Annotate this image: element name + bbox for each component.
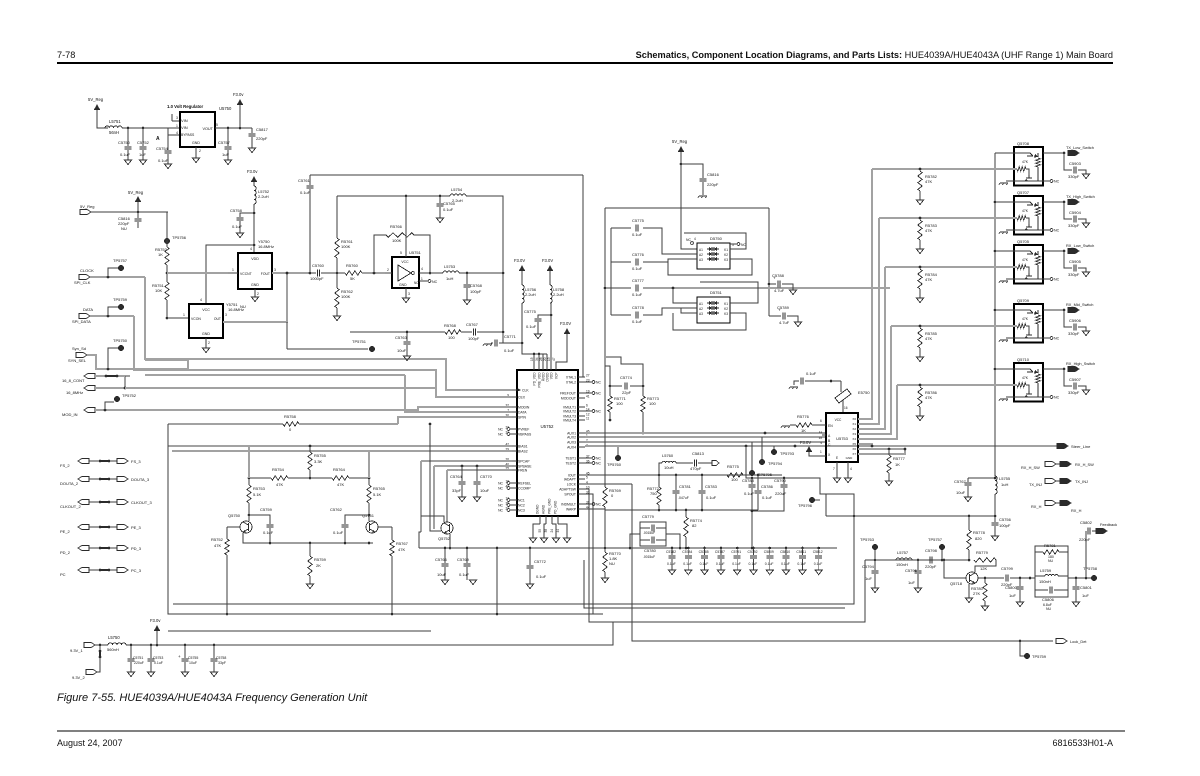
- svg-text:0.1uF: 0.1uF: [706, 495, 717, 500]
- svg-text:0.1uF: 0.1uF: [300, 190, 311, 195]
- svg-text:E5750: E5750: [858, 390, 870, 395]
- svg-text:CLKOUT_2: CLKOUT_2: [60, 504, 81, 509]
- svg-text:220pF: 220pF: [925, 564, 937, 569]
- svg-text:X1: X1: [852, 422, 856, 426]
- svg-text:PD_3: PD_3: [131, 546, 142, 551]
- svg-text:NC: NC: [1054, 229, 1060, 233]
- oscillator Y5750: [238, 253, 272, 289]
- svg-text:LOCK: LOCK: [567, 483, 577, 487]
- svg-text:VDD: VDD: [251, 257, 259, 261]
- capacitor C5785: [703, 547, 706, 550]
- U5752 bottom pins: [539, 516, 541, 524]
- svg-text:CLKOUT_3: CLKOUT_3: [131, 500, 152, 505]
- wire: [374, 235, 386, 273]
- wire: [414, 235, 430, 273]
- test point TP5759b: [1020, 641, 1024, 656]
- wire pin3: [405, 288, 407, 298]
- svg-text:F3.0v: F3.0v: [247, 169, 258, 174]
- capacitor C5757b: [968, 477, 995, 479]
- svg-text:470pF: 470pF: [690, 466, 702, 471]
- wire: [272, 272, 311, 274]
- svg-text:L5757: L5757: [897, 550, 909, 555]
- svg-text:100: 100: [616, 401, 623, 406]
- power 5V_Reg: [94, 104, 100, 110]
- wire: [122, 127, 180, 129]
- svg-text:27K: 27K: [973, 591, 980, 596]
- wire: [658, 505, 660, 510]
- svg-text:TX_Low_Switch: TX_Low_Switch: [1066, 145, 1094, 150]
- svg-text:R5777: R5777: [893, 456, 906, 461]
- svg-text:11: 11: [819, 430, 822, 434]
- svg-text:R5775: R5775: [727, 464, 740, 469]
- svg-text:C5764: C5764: [450, 474, 463, 479]
- svg-text:A3: A3: [699, 312, 703, 316]
- power F3.0V: [564, 328, 570, 334]
- svg-text:100pF: 100pF: [470, 289, 482, 294]
- svg-text:C5770: C5770: [480, 474, 493, 479]
- ground: [833, 478, 840, 483]
- port 16_8MHz: [84, 385, 95, 390]
- svg-text:VDD: VDD: [550, 372, 554, 379]
- test point TP5763: [872, 544, 878, 550]
- port PE_2: [78, 524, 89, 529]
- svg-text:47K: 47K: [1022, 160, 1029, 164]
- svg-text:47K: 47K: [337, 482, 344, 487]
- svg-text:1K: 1K: [895, 462, 900, 467]
- ground: [127, 672, 134, 677]
- svg-text:GND: GND: [192, 141, 200, 145]
- wire: [309, 470, 311, 478]
- no-connect: [1043, 278, 1050, 280]
- resistor R5751: [165, 282, 169, 300]
- resistor R5774: [685, 510, 687, 517]
- wire: [681, 152, 697, 249]
- test point TP5752: [114, 396, 120, 402]
- svg-text:NC: NC: [498, 427, 503, 431]
- svg-text:RX_H: RX_H: [1031, 504, 1042, 509]
- wire: [97, 645, 100, 672]
- svg-text:CLOCK: CLOCK: [80, 268, 94, 273]
- ground: [871, 588, 878, 593]
- svg-text:OUT: OUT: [214, 317, 221, 321]
- capacitor C5774: [609, 385, 612, 388]
- svg-text:2: 2: [199, 149, 201, 153]
- wire SPBASE: [434, 465, 512, 467]
- capacitor C5758: [240, 213, 254, 217]
- svg-text:16.8MHz: 16.8MHz: [228, 307, 244, 312]
- svg-text:NC: NC: [498, 498, 503, 502]
- svg-text:NC: NC: [596, 456, 601, 460]
- svg-text:0.1uF: 0.1uF: [443, 207, 454, 212]
- test point TP5759: [108, 307, 118, 316]
- svg-text:C5781: C5781: [679, 484, 692, 489]
- capacitor C5757: [227, 128, 229, 146]
- port FS_2: [78, 458, 89, 463]
- svg-text:PD_GND: PD_GND: [554, 500, 558, 514]
- capacitor C5813: [676, 462, 693, 464]
- svg-text:R5754: R5754: [272, 467, 285, 472]
- capacitor C5795: [917, 560, 919, 570]
- wire: [91, 211, 168, 213]
- power F3.0V: [519, 265, 525, 271]
- wire: [1034, 552, 1036, 590]
- svg-text:3: 3: [408, 292, 410, 296]
- svg-text:L5753: L5753: [444, 264, 456, 269]
- svg-text:0.1uF: 0.1uF: [700, 562, 709, 566]
- svg-text:1: 1: [421, 277, 423, 281]
- svg-text:AUX3: AUX3: [567, 441, 576, 445]
- ground: [1082, 174, 1089, 179]
- test point TP5794: [761, 437, 763, 462]
- wire bus y548: [419, 547, 672, 549]
- svg-text:C5790: C5790: [774, 478, 787, 483]
- port TX_High_Switch: [1063, 201, 1066, 204]
- svg-text:X6: X6: [852, 447, 856, 451]
- svg-text:GND: GND: [846, 456, 854, 460]
- svg-text:PE_3: PE_3: [131, 525, 142, 530]
- wire: [248, 503, 250, 515]
- svg-text:NC: NC: [1054, 396, 1060, 400]
- svg-text:1.0 Volt Regulator: 1.0 Volt Regulator: [167, 104, 204, 109]
- svg-text:C5760: C5760: [312, 263, 325, 268]
- resistor R5780: [984, 578, 986, 583]
- svg-text:X7: X7: [852, 452, 856, 456]
- svg-text:C5751: C5751: [133, 656, 143, 660]
- svg-text:Q5718: Q5718: [950, 581, 963, 586]
- resistor R5766: [386, 233, 414, 237]
- wire: [630, 534, 640, 548]
- regulator U5750: [180, 112, 215, 147]
- svg-text:CEX: CEX: [518, 396, 526, 400]
- svg-text:2: 2: [387, 268, 389, 272]
- svg-text:NC1: NC1: [518, 499, 525, 503]
- inductor L5754: [450, 194, 466, 196]
- capacitor C5798: [929, 557, 931, 564]
- test point TP5751: [369, 346, 375, 352]
- svg-text:DOUTA_2: DOUTA_2: [60, 481, 79, 486]
- power F3.0V: [547, 265, 553, 271]
- IC U5752: [517, 370, 578, 516]
- wire 9.3V rail: [126, 560, 865, 645]
- svg-text:+: +: [178, 654, 181, 659]
- capacitor C5788: [769, 283, 776, 285]
- power F3.0v: [239, 105, 241, 128]
- footer rule: [57, 730, 1125, 732]
- capacitor C5775b: [611, 227, 631, 229]
- capacitor C5783: [701, 475, 703, 490]
- svg-text:1uF: 1uF: [865, 576, 872, 581]
- wire C5773 rail: [523, 353, 547, 355]
- capacitor C5788c: [751, 478, 753, 484]
- ground: [192, 158, 199, 163]
- U5752 right NC: [585, 381, 592, 383]
- svg-text:F3.0V: F3.0V: [514, 258, 525, 263]
- svg-text:33pF: 33pF: [218, 661, 226, 665]
- resistor R5754: [249, 477, 271, 479]
- svg-text:C5809: C5809: [764, 550, 774, 554]
- svg-text:Q5751: Q5751: [362, 513, 375, 518]
- no-connect: [691, 242, 694, 245]
- svg-text:NU: NU: [1048, 559, 1054, 563]
- svg-text:0.1uF: 0.1uF: [781, 562, 790, 566]
- svg-text:47K: 47K: [1022, 376, 1029, 380]
- U5752 top pins: [533, 364, 535, 370]
- ground: [402, 298, 409, 303]
- port DATA: [79, 313, 90, 318]
- svg-text:R5781: R5781: [1044, 543, 1057, 548]
- inductor L5750: [108, 643, 126, 645]
- svg-text:0.1uF: 0.1uF: [120, 152, 131, 157]
- svg-text:0.1uF: 0.1uF: [814, 562, 823, 566]
- svg-text:NC: NC: [414, 281, 419, 285]
- svg-text:MODOUT: MODOUT: [561, 397, 576, 401]
- wire: [522, 303, 523, 354]
- wire: [459, 272, 503, 274]
- svg-text:VBPASS: VBPASS: [518, 433, 532, 437]
- wire cap row bus: [666, 547, 837, 549]
- power F3.0V: [806, 446, 812, 452]
- wire: [610, 228, 612, 315]
- capacitor C5792: [752, 547, 755, 550]
- svg-text:10uF: 10uF: [397, 348, 407, 353]
- svg-text:CLK: CLK: [522, 389, 529, 393]
- svg-text:C5767: C5767: [954, 479, 967, 484]
- svg-text:0.1uF: 0.1uF: [797, 562, 806, 566]
- wire: [166, 265, 168, 282]
- port PC: [78, 567, 89, 572]
- svg-text:100K: 100K: [341, 294, 351, 299]
- capacitor C5762: [345, 515, 369, 524]
- svg-text:F3.0V: F3.0V: [560, 321, 571, 326]
- wire: [167, 317, 189, 319]
- svg-text:7-78: 7-78: [57, 50, 75, 60]
- svg-text:R5755: R5755: [314, 453, 327, 458]
- ground: [469, 580, 476, 585]
- port MOD_IN: [84, 407, 95, 412]
- svg-text:56nH: 56nH: [109, 130, 119, 135]
- svg-text:7: 7: [833, 467, 835, 471]
- svg-text:.047uF: .047uF: [678, 496, 689, 500]
- ground: [403, 356, 410, 361]
- port FS_3: [117, 458, 128, 463]
- wire SPOUT drop: [585, 494, 593, 614]
- capacitor C5774: [800, 378, 802, 385]
- svg-text:RX_H: RX_H: [1071, 508, 1082, 513]
- svg-text:0.1uF: 0.1uF: [158, 158, 169, 163]
- svg-text:Steer_Line: Steer_Line: [1071, 444, 1091, 449]
- wire: [89, 478, 117, 480]
- capacitor C5756b: [994, 520, 996, 522]
- wire 16_8MHz net: [125, 387, 436, 389]
- svg-text:X4: X4: [852, 437, 856, 441]
- svg-text:0.1uF: 0.1uF: [232, 224, 243, 229]
- svg-text:C5762: C5762: [330, 507, 343, 512]
- capacitor C5787: [720, 547, 723, 550]
- wire: [466, 196, 503, 343]
- capacitor C5771: [491, 342, 493, 344]
- svg-text:0.1uF: 0.1uF: [683, 562, 692, 566]
- svg-text:5: 5: [586, 475, 588, 479]
- test point TP5795: [751, 442, 753, 473]
- wire: [97, 110, 108, 128]
- svg-text:TP5793: TP5793: [780, 451, 795, 456]
- svg-text:1: 1: [232, 268, 234, 272]
- svg-text:16.8MHz: 16.8MHz: [258, 244, 274, 249]
- wire row1 corner: [994, 152, 996, 154]
- svg-text:C5906: C5906: [1069, 318, 1082, 323]
- svg-text:AUX2: AUX2: [567, 436, 576, 440]
- svg-text:2.2uH: 2.2uH: [553, 292, 564, 297]
- wire y516: [826, 515, 995, 517]
- svg-text:5V_Reg: 5V_Reg: [88, 97, 104, 102]
- wire: [1068, 577, 1092, 579]
- ground: [526, 584, 533, 589]
- svg-text:750: 750: [650, 491, 657, 496]
- capacitor C5811: [801, 547, 804, 550]
- svg-text:220pF: 220pF: [256, 136, 268, 141]
- wire: [95, 644, 108, 646]
- port PD_3: [117, 545, 128, 550]
- wire: [430, 424, 441, 531]
- svg-text:C5903: C5903: [1069, 161, 1082, 166]
- svg-text:5V_Reg: 5V_Reg: [672, 139, 688, 144]
- svg-text:55: 55: [538, 529, 542, 533]
- inductor L5757: [896, 558, 912, 560]
- svg-text:TP5763: TP5763: [860, 537, 875, 542]
- svg-text:C5794: C5794: [862, 564, 875, 569]
- wire X5: [858, 444, 872, 446]
- ground: [604, 572, 606, 578]
- svg-text:U5750: U5750: [219, 106, 232, 111]
- wire: [137, 202, 139, 212]
- svg-text:NC: NC: [596, 502, 601, 506]
- capacitor C5799: [1005, 575, 1007, 582]
- svg-text:100pF: 100pF: [468, 336, 480, 341]
- ground: [799, 570, 806, 575]
- svg-text:4: 4: [694, 237, 696, 241]
- svg-text:C5799: C5799: [1001, 566, 1014, 571]
- ground: [529, 538, 536, 543]
- svg-text:C5753: C5753: [153, 656, 163, 660]
- svg-text:RX_H_SW: RX_H_SW: [1075, 462, 1094, 467]
- capacitor C5816b: [681, 164, 703, 178]
- test point TP5756: [164, 238, 170, 244]
- svg-text:C5757: C5757: [218, 140, 231, 145]
- resistor R5759: [309, 543, 311, 556]
- wire: [89, 501, 117, 503]
- inductor L5753: [443, 271, 459, 273]
- wire IOUT row: [585, 474, 758, 476]
- svg-text:TP5750: TP5750: [113, 338, 128, 343]
- svg-text:0.1uF: 0.1uF: [632, 266, 643, 271]
- wire: [606, 357, 643, 386]
- wire DATA staircase: [133, 369, 135, 371]
- svg-text:6816533H01-A: 6816533H01-A: [1052, 738, 1113, 748]
- no-connect: [1043, 396, 1050, 398]
- ground: [1082, 331, 1089, 336]
- svg-text:F3.0V: F3.0V: [800, 440, 811, 445]
- wire AUX3: [585, 441, 826, 443]
- capacitor C5781: [675, 475, 677, 490]
- svg-text:A2: A2: [699, 253, 703, 257]
- wire rail B: [337, 195, 450, 197]
- ground: [981, 606, 988, 611]
- capacitor C5772: [529, 548, 531, 565]
- resistor R5772: [658, 475, 660, 487]
- svg-text:82: 82: [692, 523, 697, 528]
- wire: [90, 276, 145, 278]
- svg-text:0.1uF: 0.1uF: [154, 661, 163, 665]
- svg-text:330pF: 330pF: [1068, 331, 1080, 336]
- svg-text:NC: NC: [686, 238, 691, 242]
- svg-text:TP5759: TP5759: [113, 297, 128, 302]
- svg-text:0.1uF: 0.1uF: [632, 232, 643, 237]
- capacitor C5906: [1064, 310, 1072, 327]
- svg-text:47: 47: [552, 357, 556, 361]
- wire D5750 out: [684, 233, 746, 249]
- wire: [978, 577, 1004, 579]
- wire y560: [865, 559, 969, 561]
- svg-text:3: 3: [274, 268, 276, 272]
- wire: [405, 196, 407, 257]
- svg-text:C5810: C5810: [780, 550, 790, 554]
- svg-text:C5765: C5765: [443, 201, 456, 206]
- svg-text:X0: X0: [852, 417, 856, 421]
- ground: [463, 300, 470, 305]
- svg-text:1K: 1K: [801, 428, 806, 433]
- resistor R5752b: [227, 526, 240, 528]
- resistor R5767: [378, 526, 392, 528]
- transistor Q5751: [366, 521, 378, 533]
- wire: [556, 334, 567, 370]
- wire U5753 A: [822, 434, 826, 436]
- no-connect: [419, 280, 428, 282]
- wire: [89, 460, 117, 462]
- svg-text:47K: 47K: [925, 228, 932, 233]
- svg-text:NC: NC: [596, 461, 601, 465]
- wire y510 node: [585, 508, 605, 510]
- wire emitters: [243, 533, 373, 543]
- ground: [1000, 398, 1008, 400]
- port PE_3: [117, 524, 128, 529]
- svg-text:.0015uF: .0015uF: [643, 531, 655, 535]
- wire AUX2: [585, 436, 826, 438]
- svg-text:C5758: C5758: [216, 656, 226, 660]
- svg-text:C5816: C5816: [707, 172, 720, 177]
- svg-text:47K: 47K: [925, 395, 932, 400]
- svg-text:K2: K2: [724, 253, 728, 257]
- transistor Q5752: [441, 522, 453, 534]
- resistor R5760: [345, 271, 362, 275]
- wire CEX staircase: [134, 316, 512, 397]
- svg-text:C5769: C5769: [457, 557, 470, 562]
- svg-text:GND: GND: [251, 283, 259, 287]
- svg-text:220pF: 220pF: [707, 182, 719, 187]
- svg-text:RX_H_SW: RX_H_SW: [1021, 465, 1040, 470]
- wire SPCAP: [421, 460, 512, 462]
- svg-text:VMULT2: VMULT2: [563, 410, 576, 414]
- svg-text:C5788: C5788: [742, 478, 755, 483]
- wire: [825, 436, 827, 438]
- svg-text:C5752: C5752: [137, 140, 150, 145]
- svg-text:TP5759: TP5759: [1032, 654, 1047, 659]
- wire: [419, 532, 421, 548]
- svg-text:2: 2: [257, 292, 259, 296]
- svg-text:100: 100: [731, 477, 738, 482]
- port PD_2: [78, 545, 89, 550]
- wire: [253, 204, 255, 253]
- wire: [286, 322, 288, 349]
